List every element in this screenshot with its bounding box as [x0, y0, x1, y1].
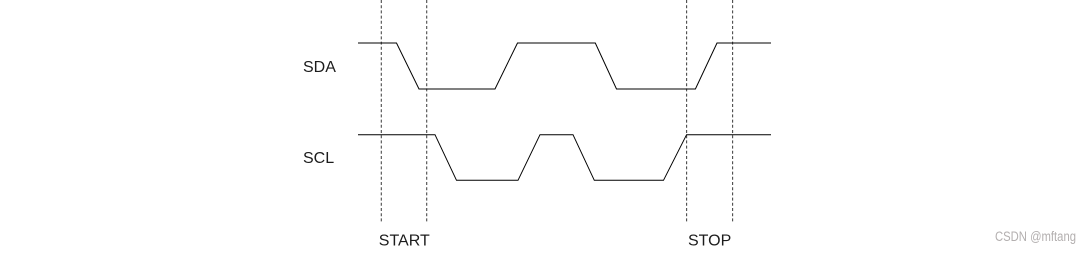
dashed line START-end	[426, 0, 428, 222]
wire SDA waveform	[358, 43, 771, 89]
svg-text:STOP: STOP	[688, 232, 731, 249]
dashed line START-begin	[380, 0, 382, 222]
svg-text:CSDN @mftang: CSDN @mftang	[995, 229, 1076, 244]
dashed line STOP-begin	[686, 0, 688, 222]
dashed line STOP-end	[732, 0, 734, 222]
svg-text:START: START	[379, 232, 430, 249]
wire SCL waveform	[358, 135, 771, 181]
svg-text:SDA: SDA	[303, 59, 336, 76]
svg-text:SCL: SCL	[303, 150, 334, 167]
